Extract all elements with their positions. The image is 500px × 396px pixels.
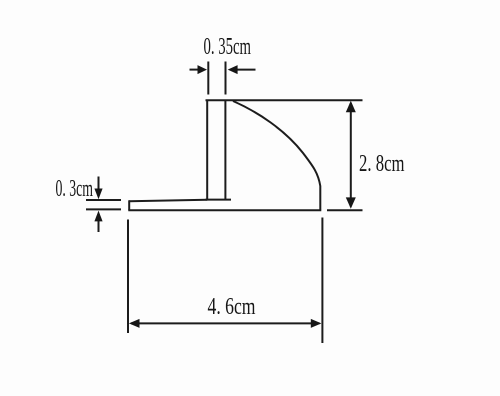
profile wall left edge xyxy=(206,100,208,200)
4.6cm left arrowhead pointing left xyxy=(129,319,140,328)
0.35cm right arrow shaft xyxy=(237,69,256,71)
profile top line and right extension line xyxy=(206,99,363,101)
profile quarter-round bumper arc xyxy=(233,101,320,210)
profile base left end cap xyxy=(128,200,130,210)
extension stub right of 0.35cm gap xyxy=(225,62,227,95)
4.6cm horizontal dimension line xyxy=(131,322,320,324)
2.8cm top arrowhead pointing up xyxy=(346,101,356,112)
svg-text:2. 8cm: 2. 8cm xyxy=(359,151,405,177)
0.3cm upper arrow shaft xyxy=(98,177,100,191)
0.3cm up arrowhead xyxy=(94,211,102,222)
profile base bottom edge xyxy=(128,209,321,211)
svg-text:4. 6cm: 4. 6cm xyxy=(208,294,256,320)
profile wall right edge xyxy=(224,101,226,200)
0.3cm down arrowhead xyxy=(94,189,102,200)
4.6cm right arrowhead pointing right xyxy=(311,319,322,328)
bottom-right extension line for 2.8cm dimension xyxy=(327,209,363,211)
0.35cm right arrowhead pointing left xyxy=(228,65,238,74)
0.35cm left arrowhead pointing right xyxy=(198,65,208,74)
0.35cm left arrow shaft xyxy=(190,69,199,71)
svg-text:0. 3cm: 0. 3cm xyxy=(56,176,94,202)
0.3cm lower extension line xyxy=(86,208,121,210)
extension stub left of 0.35cm gap xyxy=(207,62,209,95)
2.8cm bottom arrowhead pointing down xyxy=(346,197,356,208)
svg-text:0. 35cm: 0. 35cm xyxy=(204,34,252,60)
0.3cm upper extension line xyxy=(86,199,121,201)
profile base top edge xyxy=(129,200,207,201)
2.8cm vertical dimension line xyxy=(350,103,352,207)
4.6cm right extension line xyxy=(321,218,323,344)
4.6cm left extension line xyxy=(127,220,129,334)
profile wall bottom line xyxy=(206,199,232,201)
0.3cm lower arrow shaft xyxy=(98,221,100,233)
